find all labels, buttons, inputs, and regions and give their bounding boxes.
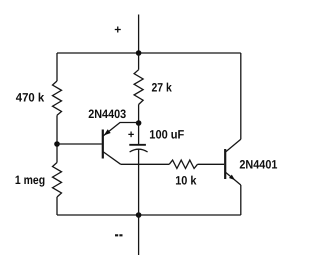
resistor R1 470 k (53, 81, 62, 115)
resistor R4 10 k (169, 160, 197, 168)
junction dot: node A (R3 / Q1 emitter / C1 positive) (136, 120, 142, 126)
wire: Q2 emitter to bottom rail (240, 185, 242, 215)
wire: left rail middle (56, 115, 58, 162)
wire: middle branch top lead (138, 53, 140, 70)
svg-text:2N4401: 2N4401 (239, 157, 277, 171)
junction dot: Q1 base node (54, 141, 60, 147)
wire: top rail (57, 52, 241, 54)
svg-text:2N4403: 2N4403 (88, 107, 126, 121)
transistor Q2 2N4401 NPN (225, 139, 241, 185)
wire: C1 positive lead (138, 123, 140, 144)
wire: C1 negative lead (138, 149, 140, 215)
svg-text:1 meg: 1 meg (15, 173, 45, 187)
wire: bottom rail (57, 214, 241, 216)
wire: R4 to Q2 base (198, 163, 225, 165)
wire: positive supply feed (138, 15, 140, 54)
svg-text:100 uF: 100 uF (149, 128, 184, 142)
wire: right rail V+ to Q2 collector (240, 53, 242, 139)
wire: left rail upper (56, 53, 58, 81)
wire: negative supply feed (138, 215, 140, 255)
svg-text:10 k: 10 k (175, 174, 196, 188)
svg-text:470 k: 470 k (16, 90, 45, 104)
junction dot: bottom rail / negative feed (136, 212, 142, 218)
svg-text:+: + (114, 23, 121, 37)
resistor R2 1 meg (53, 163, 62, 198)
wire: left rail lower (56, 197, 58, 215)
label -- (negative supply) (115, 234, 123, 236)
capacitor C1 100 uF polarized (129, 145, 147, 152)
svg-text:27 k: 27 k (152, 81, 172, 95)
wire: R3 to node A (138, 105, 140, 124)
junction dot: top rail / positive feed (136, 50, 142, 56)
transistor Q1 2N4403 PNP (103, 123, 139, 165)
wire: Q1 base (57, 143, 102, 145)
svg-text:+: + (128, 129, 134, 141)
resistor R3 27 k (134, 70, 143, 105)
wire: Q1 collector to R4 (121, 163, 170, 165)
